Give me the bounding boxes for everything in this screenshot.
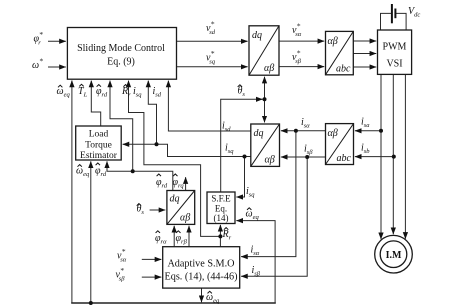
svg-text:ω*: ω*: [32, 57, 43, 72]
svg-text:αβ: αβ: [180, 213, 190, 224]
wire abc to PWM line 2: [353, 53, 376, 55]
svg-text:φrd: φrd: [96, 86, 108, 99]
wire v_salpha* arrow into SMO: [142, 258, 162, 260]
svg-text:isβ: isβ: [304, 144, 313, 157]
svg-text:v*sα: v*sα: [117, 247, 127, 264]
label phi_rbeta hat below flux dq: [176, 231, 188, 246]
label v_sd*: [206, 20, 216, 37]
wire theta_s arrow into flux dq: [150, 209, 166, 211]
svg-text:Sliding Mode Control: Sliding Mode Control: [77, 43, 165, 54]
svg-text:αβ: αβ: [328, 128, 338, 139]
label v_sbeta* SMO input: [116, 266, 126, 283]
block voltage ab-abc transform: [326, 31, 354, 74]
svg-text:ωeq: ωeq: [206, 292, 220, 305]
svg-text:φrβ: φrβ: [176, 233, 188, 246]
junction dot theta_s: [263, 97, 267, 101]
label i_sd mid: [222, 121, 231, 134]
svg-text:Adaptive S.M.O: Adaptive S.M.O: [167, 258, 234, 269]
svg-text:S.F.E: S.F.E: [211, 194, 231, 204]
wire phi_rd branch to SMC: [110, 81, 133, 172]
wire i_sb tap to abc block: [355, 156, 394, 158]
wire v_sd* SMC to dq: [177, 40, 248, 42]
wire theta_s vertical between dq blocks: [264, 77, 266, 100]
label i_sa: [361, 117, 370, 130]
wire i_sbeta abc to dq: [281, 156, 326, 158]
wire omega_eq SMO output to bus: [201, 288, 203, 302]
svg-text:v*sα: v*sα: [292, 22, 302, 39]
junction dot phi_rd: [131, 169, 135, 173]
svg-text:Eqs. (14), (44-46): Eqs. (14), (44-46): [165, 271, 238, 282]
svg-text:isd: isd: [153, 86, 162, 99]
wire battery right lead: [395, 13, 406, 30]
svg-text:Load: Load: [89, 130, 109, 140]
label phi_rd hat above flux dq: [156, 174, 168, 190]
arrow omega_eq into SMC: [71, 81, 73, 84]
svg-text:v*sβ: v*sβ: [116, 266, 126, 283]
svg-text:PWM: PWM: [383, 42, 407, 53]
svg-text:dq: dq: [252, 30, 262, 41]
wire R_r SMO to SFE: [219, 225, 221, 247]
svg-text:φrd: φrd: [95, 166, 107, 179]
junction dot i_sq branch: [243, 155, 247, 159]
svg-text:Rr: Rr: [222, 229, 232, 242]
wire v_salpha* dq to ab/abc: [279, 40, 324, 42]
block flux dq-ab transform: [167, 191, 195, 225]
svg-text:Estimator: Estimator: [80, 151, 118, 161]
label i_sb: [361, 143, 370, 156]
wire phi_r* input arrow: [48, 40, 66, 42]
block current dq-ab transform: [251, 124, 280, 166]
svg-text:Eq.: Eq.: [215, 204, 227, 214]
svg-text:ωeq: ωeq: [246, 209, 260, 222]
label theta_s hat flux dq: [137, 204, 145, 217]
wire motor phase c: [404, 74, 406, 238]
motor IM outer circle: [375, 235, 413, 273]
label i_sbeta top: [304, 144, 313, 157]
svg-text:v*sβ: v*sβ: [292, 49, 302, 66]
wire i_salpha down to SMO: [241, 131, 296, 257]
svg-text:isq: isq: [246, 186, 255, 199]
label omega_eq hat SFE input: [246, 208, 260, 221]
wire theta_s down into current dq: [264, 99, 266, 122]
label phi_r*: [34, 30, 44, 47]
svg-text:ωeq: ωeq: [76, 166, 90, 179]
wire v_sq* SMC to dq: [177, 66, 248, 68]
wire i_sd to SMC: [168, 81, 250, 131]
svg-text:TL: TL: [78, 86, 88, 99]
wire abc to PWM line 3: [353, 66, 376, 68]
block Adaptive SMO: [163, 247, 240, 288]
label v_sbeta*: [292, 49, 302, 66]
svg-text:Vdc: Vdc: [408, 6, 420, 18]
wire i_salpha abc to dq: [281, 130, 326, 132]
label v_salpha* SMO input: [117, 247, 127, 264]
label omega*: [32, 57, 43, 72]
label R_r hat SMO output: [222, 228, 232, 242]
block Load Torque Estimator: [76, 126, 122, 161]
block PWM VSI: [378, 30, 412, 74]
wire battery left lead: [381, 13, 392, 30]
wire phi_rd to LTE: [107, 161, 173, 190]
wire phi_rq output arrow: [185, 177, 187, 190]
label omega_eq hat SMO bottom: [206, 291, 220, 304]
label i_salpha top: [301, 117, 310, 130]
label i_sbeta SMO input: [252, 265, 261, 278]
label R_r hat below SMC: [121, 85, 131, 99]
svg-text:isq: isq: [225, 143, 234, 156]
svg-text:αβ: αβ: [265, 155, 275, 166]
svg-text:dq: dq: [170, 194, 180, 205]
svg-text:v*sd: v*sd: [206, 20, 216, 37]
svg-text:isα: isα: [251, 245, 260, 258]
label V_dc: [408, 6, 420, 18]
wire i_sbeta down to SMO: [241, 157, 307, 276]
junction dot bus LTE: [89, 301, 93, 305]
svg-text:φrd: φrd: [156, 177, 168, 190]
junction dot i_salpha: [294, 129, 298, 133]
svg-text:φrq: φrq: [173, 177, 185, 190]
svg-text:ωeq: ωeq: [57, 86, 71, 99]
svg-text:φrα: φrα: [155, 233, 167, 246]
label phi_rq hat above flux dq: [173, 174, 185, 190]
svg-text:isβ: isβ: [252, 265, 261, 278]
label i_sq below SMC: [133, 86, 142, 99]
label i_sd below SMC: [153, 86, 162, 99]
label i_sq SFE input: [246, 186, 255, 199]
junction dot R_r: [218, 234, 222, 238]
wire theta_s from SFE top: [221, 99, 263, 192]
svg-text:φ*r: φ*r: [34, 30, 44, 47]
svg-text:isα: isα: [301, 117, 310, 130]
svg-text:isb: isb: [361, 143, 370, 156]
svg-text:Torque: Torque: [85, 141, 112, 151]
label v_sq*: [206, 49, 216, 66]
wire motor phase a: [380, 74, 382, 239]
label i_salpha SMO input: [251, 245, 260, 258]
junction dot i_sq to LTE: [155, 142, 159, 146]
label phi_rd hat below LTE: [95, 163, 107, 178]
wire omega_eq bus: [71, 81, 73, 303]
svg-text:αβ: αβ: [264, 63, 274, 74]
svg-text:I.M: I.M: [386, 250, 402, 261]
label omega_eq hat below SMC: [57, 85, 71, 98]
wire T_L LTE to SMC: [91, 81, 100, 126]
wire i_sq branch to SMC: [148, 81, 156, 145]
svg-text:isa: isa: [361, 117, 370, 130]
battery long plate: [391, 4, 393, 23]
wire R_r branch to SMC: [129, 81, 221, 237]
label i_sq mid: [225, 143, 234, 156]
label phi_ralpha hat below flux dq: [155, 231, 167, 246]
wire i_sa tap to abc block: [355, 130, 381, 132]
svg-text:Rr: Rr: [121, 86, 131, 99]
svg-text:Eq. (9): Eq. (9): [107, 57, 135, 68]
block current ab-abc transform: [326, 124, 354, 165]
svg-text:αβ: αβ: [328, 36, 338, 47]
junction dot i_sbeta: [305, 155, 309, 159]
label theta_s hat top: [238, 85, 246, 98]
label T_L hat below SMC: [78, 84, 88, 98]
label v_salpha*: [292, 22, 302, 39]
wire v_sbeta* dq to ab/abc: [279, 66, 324, 68]
label phi_rd hat below SMC: [96, 85, 108, 99]
motor IM inner circle: [380, 241, 407, 268]
battery short plate: [394, 9, 396, 19]
wire phi_rbeta SMO to flux dq: [188, 226, 190, 247]
svg-text:VSI: VSI: [386, 59, 402, 70]
wire abc to PWM line 1: [353, 40, 376, 42]
wire i_sq branch to SFE: [236, 157, 244, 198]
svg-text:dq: dq: [254, 128, 264, 139]
svg-text:(14): (14): [214, 213, 229, 223]
wire motor phase b: [392, 74, 394, 234]
block voltage dq-ab transform: [249, 26, 279, 75]
wire phi_ralpha SMO to flux dq: [173, 226, 175, 247]
block SFE Eq 14: [207, 192, 235, 224]
junction dot i_sb: [392, 155, 396, 159]
wire omega_eq bus to LTE: [90, 161, 92, 303]
block Sliding Mode Control: [67, 28, 176, 80]
wire v_sbeta* arrow into SMO: [142, 276, 162, 278]
wire i_sq to LTE: [123, 144, 251, 156]
junction dot i_sa: [379, 129, 383, 133]
svg-text:abc: abc: [337, 153, 352, 164]
label omega_eq hat below LTE: [76, 165, 90, 178]
svg-text:isq: isq: [133, 86, 142, 99]
svg-text:abc: abc: [336, 64, 351, 75]
svg-text:θs: θs: [238, 86, 246, 99]
svg-text:v*sq: v*sq: [206, 49, 216, 66]
svg-text:isd: isd: [222, 121, 231, 134]
wire omega* input arrow: [48, 66, 66, 68]
